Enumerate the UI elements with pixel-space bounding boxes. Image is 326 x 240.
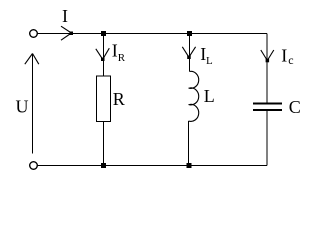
- wire bottom rail: [38, 165, 268, 167]
- label L: [204, 86, 215, 106]
- label R: [113, 89, 125, 109]
- wire R branch lower: [103, 122, 105, 166]
- svg-text:R: R: [118, 52, 126, 64]
- svg-text:I: I: [281, 46, 287, 66]
- arrow current IC (down): [261, 50, 274, 62]
- label IR: [112, 41, 126, 65]
- svg-text:c: c: [288, 53, 293, 67]
- label I: [62, 6, 68, 26]
- wire L branch upper: [189, 34, 191, 72]
- svg-text:L: L: [206, 55, 213, 67]
- wire C branch upper (right side drop): [266, 34, 268, 104]
- node A (top junction of R branch): [101, 31, 106, 36]
- arrow current IL (down): [182, 47, 195, 59]
- svg-text:R: R: [113, 89, 125, 109]
- capacitor C: [253, 104, 282, 110]
- resistor R: [97, 76, 111, 122]
- wire C branch lower: [266, 111, 268, 166]
- label IC: [281, 46, 293, 68]
- terminal top-left: [30, 30, 38, 38]
- wire R branch upper: [103, 34, 105, 77]
- wire left branch: U arrow line: [32, 54, 34, 154]
- svg-text:L: L: [204, 86, 215, 106]
- label U: [16, 97, 29, 117]
- arrow voltage U (up-pointing): [25, 54, 39, 65]
- svg-text:U: U: [16, 97, 29, 117]
- inductor L: [189, 71, 199, 121]
- terminal bottom-left: [30, 162, 38, 170]
- node D (bottom junction of L branch): [187, 163, 192, 168]
- arrow current I (right-pointing on top rail): [61, 26, 73, 40]
- wire top rail: [38, 33, 268, 35]
- node C (bottom junction of R branch): [101, 163, 106, 168]
- svg-text:C: C: [289, 97, 301, 117]
- node B (top junction of L branch): [187, 31, 192, 36]
- svg-text:I: I: [62, 6, 68, 26]
- arrow current IR (down): [96, 48, 110, 61]
- wire L branch lower: [188, 121, 190, 166]
- label C: [289, 97, 301, 117]
- label IL: [200, 44, 213, 67]
